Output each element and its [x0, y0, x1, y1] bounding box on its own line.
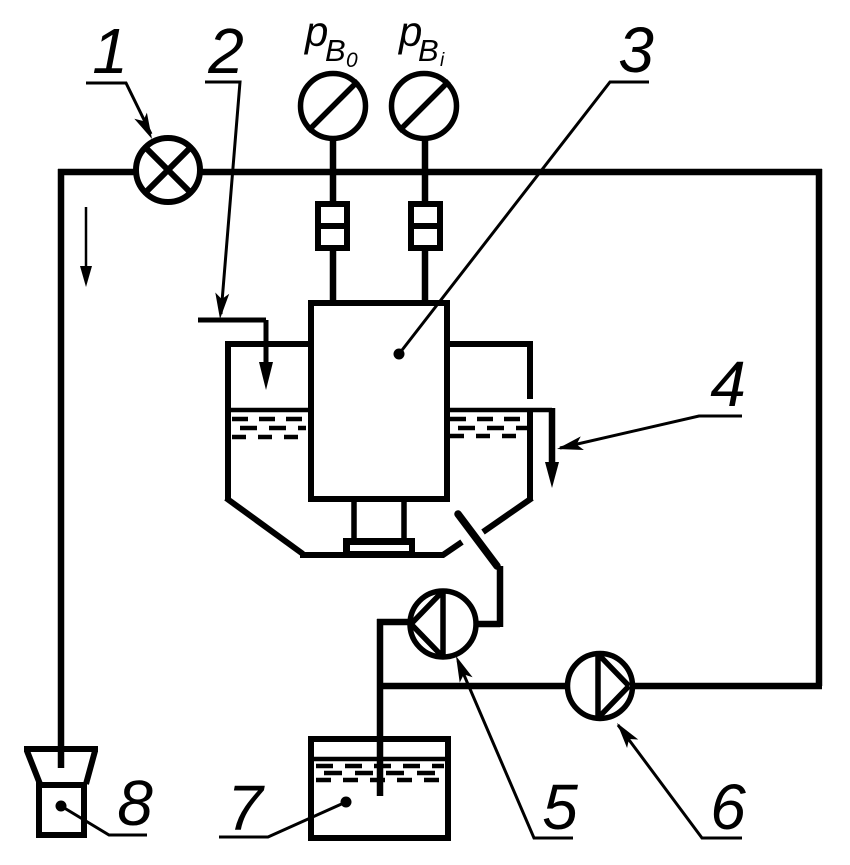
- svg-text:1: 1: [92, 15, 128, 87]
- svg-text:4: 4: [710, 348, 746, 420]
- overflow outlet pipe with down arrow (label 4 target): [545, 408, 559, 488]
- pedestal under box 3: [343, 499, 415, 554]
- svg-text:i: i: [440, 50, 445, 71]
- label pB0: [303, 8, 358, 72]
- gauge PBi: [392, 74, 457, 139]
- gauge PB0: [301, 74, 366, 139]
- svg-text:8: 8: [117, 767, 153, 839]
- label 8: [117, 767, 153, 839]
- svg-text:5: 5: [542, 771, 578, 843]
- leader dot on box 3: [394, 349, 405, 360]
- vessel liquid level left: [231, 410, 308, 437]
- leader 6 with arrow to pump 6: [611, 719, 742, 838]
- leader 1 with arrow to valve: [86, 83, 158, 142]
- svg-text:B: B: [418, 33, 439, 68]
- leader 4 with arrow to overflow: [555, 416, 742, 456]
- wire: drop pipe into tank 7: [377, 619, 384, 796]
- wire: gauge PBi pipe: [422, 140, 429, 303]
- wire: gauge PB0 pipe: [330, 140, 337, 303]
- svg-text:0: 0: [346, 49, 358, 72]
- label 1: [92, 15, 128, 87]
- svg-text:B: B: [325, 33, 346, 68]
- label 5: [542, 771, 578, 843]
- tank 7 liquid: [314, 759, 445, 780]
- measuring chamber 3 (big box): [311, 303, 447, 499]
- pump 5: [410, 591, 476, 657]
- leader 2 with arrow to inlet pipe: [205, 82, 240, 320]
- svg-text:3: 3: [618, 14, 654, 86]
- label pBi: [397, 8, 445, 71]
- connector block under gauge PB0: [315, 204, 350, 248]
- valve 1 (circle with X): [136, 138, 200, 202]
- tank 7 drop pipe (over liquid): [377, 739, 384, 796]
- wire: bottom header through pump 6: [380, 683, 822, 690]
- funnel 8: [24, 749, 98, 835]
- svg-text:2: 2: [207, 15, 244, 87]
- wire: swing lever pipe: [458, 514, 497, 566]
- wire: pump 5 left pipe: [377, 619, 410, 626]
- leader 3 with dot on box: [399, 82, 649, 354]
- svg-text:6: 6: [710, 771, 746, 843]
- leader 5 with arrow to pump 5: [450, 653, 573, 838]
- label 4: [710, 348, 746, 420]
- label 7: [227, 772, 265, 844]
- connector block under gauge PBi: [408, 204, 443, 248]
- wire: top header line: [58, 169, 822, 176]
- flow arrow beside left trunk: [80, 207, 92, 287]
- wire: left trunk down to funnel: [58, 169, 65, 768]
- wire: right trunk: [816, 169, 823, 686]
- label 3: [618, 14, 654, 86]
- vessel liquid level right and overflow line: [447, 410, 552, 436]
- leader 7 with dot in tank: [219, 797, 352, 838]
- tank 7: [311, 739, 448, 838]
- label 2: [207, 15, 244, 87]
- leader 8 with dot in funnel: [56, 801, 148, 836]
- label 6: [710, 771, 746, 843]
- vessel 2 tank walls: [225, 341, 533, 555]
- svg-text:7: 7: [227, 772, 265, 844]
- inlet pipe with down arrow (label 2 target): [198, 320, 273, 390]
- wire: pump 5 right pipe: [476, 566, 500, 627]
- pump 6: [568, 654, 633, 719]
